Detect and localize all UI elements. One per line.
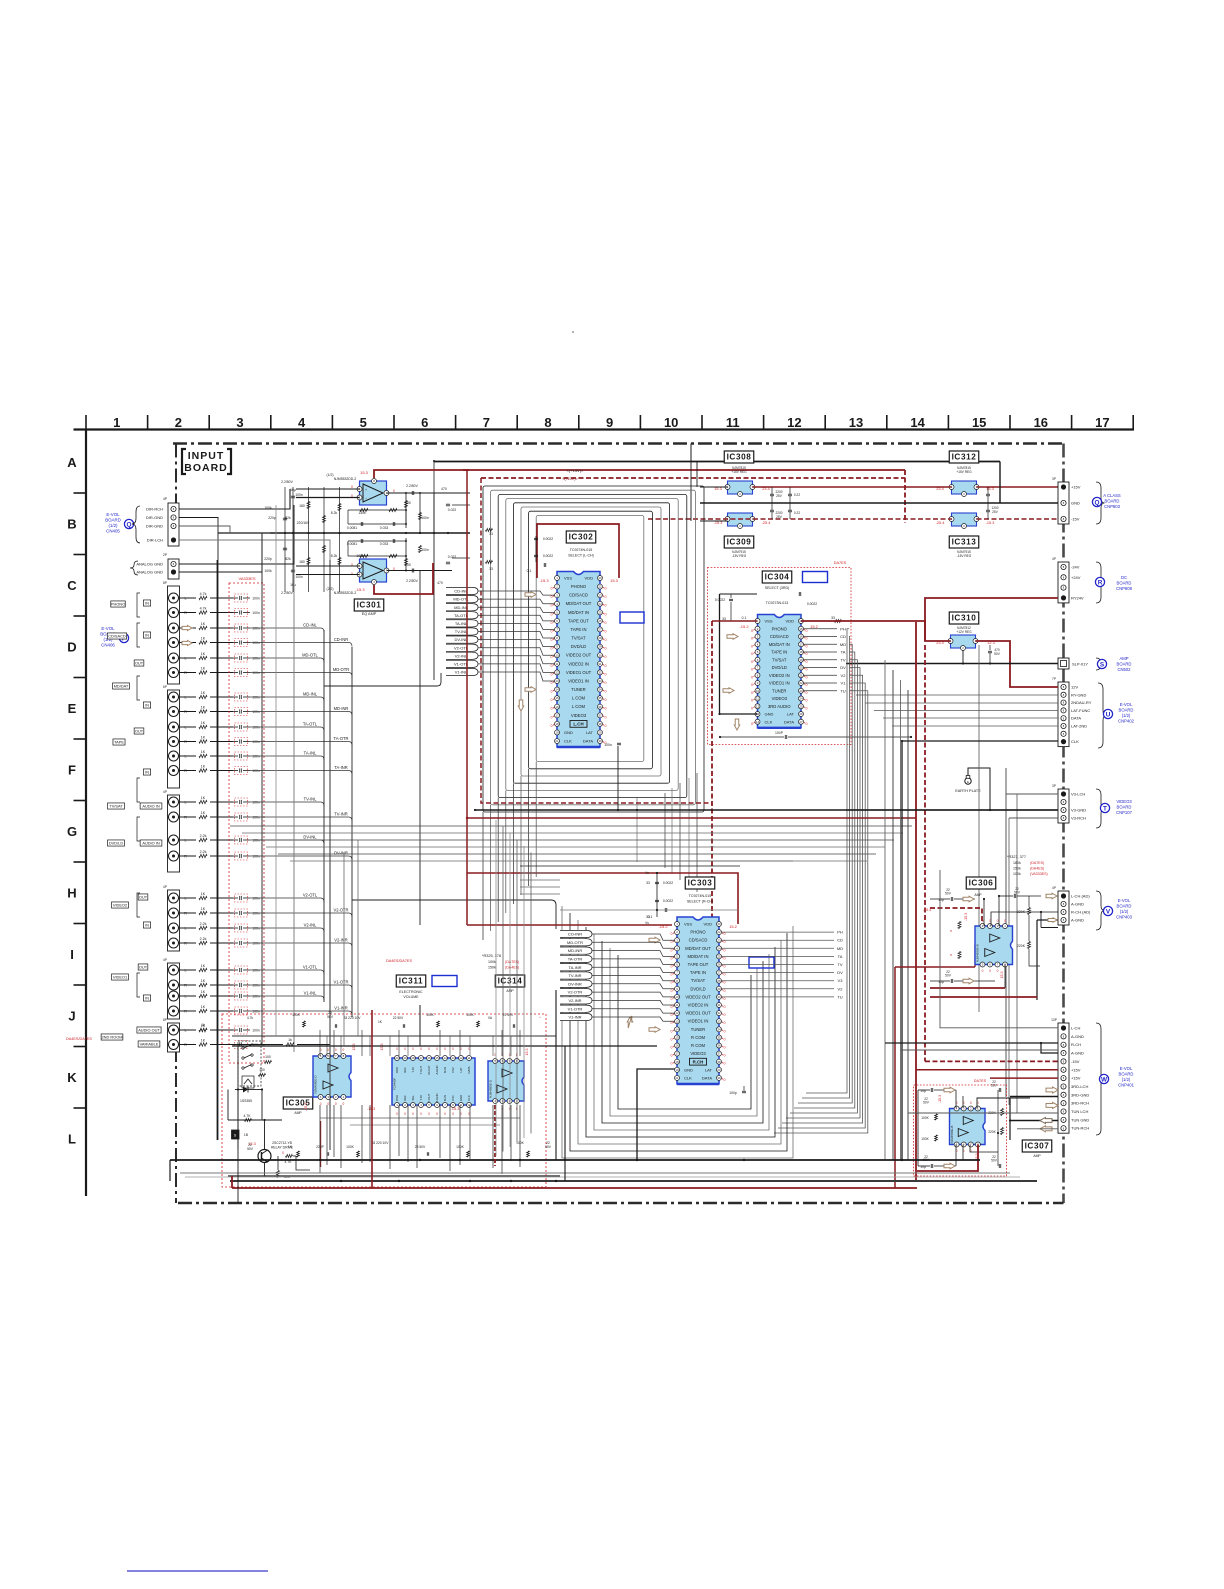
svg-text:VDD: VDD	[704, 922, 713, 927]
svg-text:0.033: 0.033	[380, 526, 389, 530]
svg-text:LAT-2ND: LAT-2ND	[1071, 724, 1087, 729]
IC303 output letters	[722, 930, 844, 1000]
svg-text:100K: 100K	[346, 1145, 355, 1149]
svg-text:I: I	[70, 947, 74, 962]
wire gnd to left	[218, 532, 270, 534]
wires to connector W	[885, 870, 1058, 1129]
svg-text:0.0022: 0.0022	[807, 602, 817, 606]
svg-text:CN405: CN405	[106, 529, 120, 534]
svg-text:24: 24	[799, 697, 803, 701]
svg-text:−: −	[365, 497, 367, 501]
svg-text:A-GND: A-GND	[1071, 1034, 1084, 1039]
svg-text:5: 5	[360, 415, 367, 430]
svg-text:V2-OTL: V2-OTL	[303, 893, 318, 898]
svg-text:0: 0	[412, 1047, 414, 1051]
IC301 red annotations	[351, 470, 395, 592]
svg-text:2.2k: 2.2k	[200, 850, 207, 854]
svg-text:A CLASS: A CLASS	[1103, 493, 1121, 498]
svg-text:14: 14	[910, 415, 925, 430]
svg-text:S: S	[234, 1134, 237, 1138]
svg-text:0: 0	[327, 1102, 329, 1106]
svg-text:OUT: OUT	[139, 894, 148, 899]
svg-text:BOARD: BOARD	[1117, 662, 1132, 667]
svg-text:40: 40	[717, 922, 721, 926]
wire IC310 gnd pin	[962, 650, 964, 664]
svg-text:2.2/50V: 2.2/50V	[281, 591, 293, 595]
svg-text:100P: 100P	[775, 731, 784, 735]
component row above IC311	[247, 1011, 541, 1028]
svg-text:0.0081: 0.0081	[347, 542, 357, 546]
input source select labels	[101, 600, 162, 1047]
svg-text:IC312: IC312	[952, 453, 977, 462]
svg-text:H: H	[67, 886, 76, 901]
svg-text:T-IN: T-IN	[419, 1095, 423, 1100]
op-amp IC301b	[357, 559, 389, 585]
svg-text:TU: TU	[837, 994, 842, 999]
wire bottom bus 4 thick	[230, 1180, 1037, 1182]
input jack connector boxes	[163, 581, 179, 1052]
svg-text:220p: 220p	[268, 516, 276, 520]
IC304 option box DA7ES	[708, 568, 852, 745]
IC303 label	[685, 877, 714, 889]
wire ground bus vertical	[217, 560, 219, 1140]
svg-text:220/16V: 220/16V	[297, 521, 310, 525]
IC305 label	[283, 1097, 312, 1109]
svg-text:CS1: CS1	[451, 1095, 455, 1101]
svg-text:L: L	[184, 927, 186, 931]
arrow IC303 up	[627, 1016, 633, 1028]
svg-text:TUNER: TUNER	[772, 688, 786, 693]
svg-text:PHONO: PHONO	[772, 626, 788, 631]
svg-text:IN: IN	[145, 995, 149, 1000]
svg-text:DV-INR: DV-INR	[334, 851, 348, 856]
svg-text:(DA4ES): (DA4ES)	[1030, 867, 1044, 871]
svg-text:8.2k: 8.2k	[331, 554, 338, 558]
arrow CD L	[182, 626, 192, 631]
svg-text:-15.2: -15.2	[739, 624, 749, 629]
svg-text:TV/SAT: TV/SAT	[109, 803, 123, 808]
wire maroon drop x372	[371, 1010, 373, 1188]
svg-text:0: 0	[671, 989, 673, 993]
svg-text:BOARD: BOARD	[1119, 708, 1134, 713]
IC303 body	[675, 917, 722, 1084]
svg-text:33: 33	[646, 881, 650, 885]
arrow TUN GND	[1040, 1118, 1052, 1124]
wire black drop x556	[555, 990, 557, 1160]
svg-text:1: 1	[113, 415, 120, 430]
svg-text:IC313: IC313	[952, 538, 977, 547]
svg-text:25: 25	[598, 610, 602, 614]
svg-text:18: 18	[411, 1056, 415, 1060]
connector W E-VOL	[1051, 1018, 1089, 1133]
op-amp IC301a	[357, 479, 389, 506]
svg-text:0: 0	[420, 1112, 422, 1116]
power cap values	[775, 490, 998, 519]
svg-text:10: 10	[555, 653, 559, 657]
svg-text:ANALOG GND: ANALOG GND	[136, 562, 163, 567]
IC304 body	[755, 615, 804, 728]
svg-text:10: 10	[664, 415, 678, 430]
svg-text:-15.3: -15.3	[986, 521, 995, 525]
svg-text:BOARD: BOARD	[184, 462, 228, 474]
wire reg inputs	[691, 444, 728, 522]
svg-text:CO-INR: CO-INR	[568, 932, 582, 937]
svg-text:18: 18	[675, 1060, 679, 1064]
svg-text:CLK: CLK	[1071, 739, 1079, 744]
wire +15 IC306 b2	[930, 996, 1037, 998]
svg-text:R: R	[184, 912, 187, 916]
svg-text:LAT: LAT	[787, 712, 795, 717]
svg-text:L-CH: L-CH	[1071, 1026, 1080, 1031]
svg-text:15: 15	[799, 627, 803, 631]
svg-text:1K: 1K	[201, 892, 206, 896]
svg-text:4.7k: 4.7k	[200, 607, 207, 611]
svg-text:38: 38	[598, 722, 602, 726]
svg-text:0: 0	[343, 1102, 345, 1106]
svg-text:15: 15	[555, 696, 559, 700]
arrow IC306 in2	[963, 978, 974, 984]
svg-text:M-OUT: M-OUT	[427, 1065, 431, 1074]
junction CLK	[901, 740, 903, 742]
svg-text:0: 0	[396, 1047, 398, 1051]
svg-text:CD/SACD: CD/SACD	[569, 593, 588, 598]
svg-text:DATA: DATA	[702, 1075, 712, 1080]
svg-text:L COM: L COM	[572, 704, 586, 709]
svg-text:TU: TU	[840, 688, 845, 693]
svg-text:VIDEO2 OUT: VIDEO2 OUT	[566, 653, 592, 658]
svg-text:(1/2): (1/2)	[327, 473, 334, 477]
svg-text:17: 17	[555, 713, 559, 717]
wire maroon mid y818	[466, 817, 916, 819]
svg-text:R COM: R COM	[691, 1043, 705, 1048]
svg-text:VSS: VSS	[684, 922, 692, 927]
svg-text:CNP107: CNP107	[1116, 810, 1132, 815]
svg-text:*R327, 377: *R327, 377	[1007, 855, 1026, 859]
svg-text:TA-OTR: TA-OTR	[568, 957, 583, 962]
svg-text:A-GND: A-GND	[1071, 918, 1084, 923]
svg-text:0: 0	[724, 981, 726, 985]
svg-text:AMP: AMP	[974, 893, 982, 897]
svg-text:R: R	[184, 816, 187, 820]
svg-text:26: 26	[799, 712, 803, 716]
svg-text:0: 0	[551, 595, 553, 599]
IC313 label	[949, 536, 978, 548]
svg-text:33: 33	[831, 616, 835, 620]
wire maroon drop x232	[231, 1176, 233, 1188]
svg-text:25V: 25V	[776, 515, 783, 519]
grid ruler row letters A-L	[67, 455, 77, 1147]
svg-text:39: 39	[717, 1076, 721, 1080]
svg-text:50V: 50V	[945, 974, 952, 978]
wire CD-INR feed vertical	[419, 571, 421, 926]
svg-text:0: 0	[751, 722, 753, 726]
svg-text:16: 16	[555, 705, 559, 709]
wire IC303 VSS red long	[467, 924, 672, 926]
svg-text:3P: 3P	[1052, 477, 1056, 481]
svg-text:RY24V: RY24V	[1071, 595, 1084, 600]
svg-text:SEL: SEL	[411, 1095, 415, 1101]
wire -15SW drop	[904, 470, 906, 523]
svg-text:CD-INR: CD-INR	[334, 637, 348, 642]
svg-text:(1/2): (1/2)	[1122, 713, 1131, 718]
svg-text:AMP: AMP	[1119, 656, 1128, 661]
svg-text:100p: 100p	[729, 1091, 737, 1095]
svg-text:IC301: IC301	[357, 601, 382, 610]
svg-text:11: 11	[675, 1003, 678, 1007]
svg-text:33 220 10V: 33 220 10V	[344, 1016, 362, 1020]
junction dots bottom bus	[319, 1159, 903, 1182]
IC313 subtitle	[957, 550, 972, 558]
wire vertical x1006	[1005, 768, 1007, 1097]
svg-text:0.22: 0.22	[794, 511, 800, 515]
svg-text:L: L	[184, 801, 186, 805]
IC306 passives	[938, 887, 1030, 984]
svg-text:0: 0	[605, 698, 607, 702]
svg-text:DATA: DATA	[784, 719, 794, 724]
svg-text:22: 22	[598, 585, 602, 589]
svg-text:OUT: OUT	[135, 660, 144, 665]
svg-text:E-VOL: E-VOL	[1118, 898, 1131, 903]
wire IC304 VDD red right	[801, 621, 925, 641]
svg-text:IC311: IC311	[399, 977, 423, 986]
svg-text:VIDEO2 OUT: VIDEO2 OUT	[685, 994, 711, 999]
svg-text:13: 13	[451, 1056, 455, 1060]
svg-text:0: 0	[551, 587, 553, 591]
svg-text:TV/SAT: TV/SAT	[691, 978, 706, 983]
wire vertical x294	[293, 505, 295, 1052]
svg-text:35: 35	[598, 696, 602, 700]
svg-text:EARTH PLATE: EARTH PLATE	[955, 789, 981, 793]
svg-text:V3-RCH: V3-RCH	[1071, 816, 1086, 821]
svg-text:0: 0	[605, 707, 607, 711]
svg-text:MD-INR: MD-INR	[568, 948, 583, 953]
wire -15V maroon vertical	[915, 622, 917, 1181]
IC304 label	[762, 571, 791, 583]
svg-text:14: 14	[675, 1027, 679, 1031]
svg-text:CNP401: CNP401	[1118, 1083, 1134, 1088]
svg-text:0.0081: 0.0081	[347, 526, 357, 530]
node U circled	[1103, 709, 1112, 718]
svg-text:16: 16	[799, 635, 803, 639]
AMP BOARD label	[1117, 656, 1132, 672]
svg-text:BOARD: BOARD	[105, 518, 121, 523]
IC305 red marks	[304, 1044, 356, 1112]
svg-text:0: 0	[551, 715, 553, 719]
svg-text:13P: 13P	[1051, 1018, 1057, 1022]
svg-text:VIDEO1 IN: VIDEO1 IN	[688, 1019, 709, 1024]
svg-text:50V: 50V	[945, 892, 952, 896]
svg-text:B: B	[67, 517, 76, 532]
svg-text:0: 0	[671, 965, 673, 969]
svg-text:38: 38	[717, 1060, 721, 1064]
svg-text:14: 14	[555, 688, 559, 692]
svg-text:15: 15	[675, 1036, 679, 1040]
svg-text:MD-INR: MD-INR	[334, 706, 349, 711]
svg-text:-15.3: -15.3	[539, 578, 549, 583]
svg-text:PHONO: PHONO	[111, 601, 125, 606]
svg-text:22: 22	[717, 930, 721, 934]
arrow IC302 down	[518, 700, 524, 711]
svg-text:0: 0	[605, 672, 607, 676]
signal fanout labels	[302, 623, 349, 1011]
E-VOL BOARD CN406 label	[100, 626, 116, 648]
node T circled	[1100, 803, 1109, 812]
svg-text:T-OUT: T-OUT	[419, 1066, 423, 1075]
svg-text:0: 0	[724, 973, 726, 977]
svg-text:1K: 1K	[201, 750, 206, 754]
svg-text:0: 0	[1004, 919, 1006, 923]
svg-text:100k: 100k	[264, 569, 272, 573]
svg-text:0: 0	[724, 1021, 726, 1025]
svg-text:33: 33	[489, 567, 493, 571]
wire bundle right verticals	[885, 660, 908, 1160]
svg-text:R: R	[184, 710, 187, 714]
svg-text:50V: 50V	[247, 1147, 254, 1151]
svg-text:22 50V: 22 50V	[503, 1013, 514, 1017]
connector U E-VOL	[1052, 677, 1092, 747]
svg-text:50V: 50V	[994, 652, 1001, 656]
svg-text:SELECT (R-CH): SELECT (R-CH)	[687, 900, 713, 904]
svg-text:9: 9	[606, 415, 613, 430]
svg-text:0: 0	[751, 644, 753, 648]
wire CLK right	[902, 740, 1058, 742]
svg-text:0: 0	[724, 940, 726, 944]
svg-text:R.CH: R.CH	[693, 1059, 704, 1064]
svg-text:0: 0	[551, 681, 553, 685]
IC311 blue option box	[432, 976, 457, 987]
svg-text:0: 0	[751, 629, 753, 633]
svg-text:11: 11	[555, 662, 558, 666]
svg-text:15.3: 15.3	[352, 1044, 356, 1051]
red note R327	[1007, 855, 1048, 876]
svg-text:0: 0	[806, 660, 808, 664]
svg-text:100: 100	[259, 1068, 265, 1072]
svg-text:DDA: DDA	[395, 1067, 399, 1073]
svg-text:SLP-01Y: SLP-01Y	[1072, 662, 1088, 667]
wire risers above ICs	[320, 1030, 520, 1056]
svg-text:IC308: IC308	[727, 453, 752, 462]
svg-text:2ND ROOM: 2ND ROOM	[102, 1034, 123, 1039]
svg-text:0: 0	[982, 969, 984, 973]
svg-text:24: 24	[717, 946, 721, 950]
IC302 subtitle	[568, 548, 594, 558]
svg-text:*R325, 378: *R325, 378	[482, 954, 501, 958]
svg-text:4.7k: 4.7k	[247, 1016, 254, 1020]
svg-text:7P: 7P	[1052, 677, 1056, 681]
svg-text:TA: TA	[838, 954, 843, 959]
svg-text:CNP403: CNP403	[1116, 915, 1132, 920]
IC302 red pin marks	[551, 587, 607, 745]
svg-text:50V: 50V	[1014, 891, 1021, 895]
svg-text:E-VOL: E-VOL	[106, 512, 120, 517]
svg-text:(1/2): (1/2)	[1120, 909, 1129, 914]
wire trunk L vertical	[323, 630, 325, 1002]
wires into IC303 region	[520, 873, 560, 894]
svg-text:CD: CD	[840, 634, 846, 639]
svg-text:-15.3: -15.3	[355, 587, 365, 592]
svg-text:150k: 150k	[488, 966, 496, 970]
svg-text:0: 0	[806, 668, 808, 672]
svg-text:0: 0	[335, 1102, 337, 1106]
svg-text:NJM4580E-D: NJM4580E-D	[489, 1079, 493, 1098]
svg-text:100k: 100k	[1013, 872, 1021, 876]
IC304 decoupling parts	[715, 592, 912, 739]
svg-text:4P: 4P	[163, 885, 167, 889]
svg-text:R: R	[1098, 579, 1103, 586]
svg-text:TV-INL: TV-INL	[304, 797, 317, 802]
svg-text:1K: 1K	[201, 964, 206, 968]
svg-text:-15V REG: -15V REG	[732, 554, 747, 558]
connector S AMP BOARD	[1058, 658, 1088, 669]
svg-text:-15V: -15V	[1071, 517, 1080, 522]
svg-text:36: 36	[717, 1044, 721, 1048]
svg-text:0: 0	[282, 1151, 284, 1155]
svg-text:12V: 12V	[1071, 685, 1078, 690]
svg-text:0: 0	[605, 604, 607, 608]
svg-text:0: 0	[724, 1054, 726, 1058]
svg-text:0: 0	[551, 638, 553, 642]
svg-text:0: 0	[335, 1048, 337, 1052]
svg-text:VOLUME: VOLUME	[403, 995, 419, 999]
switch resistors	[259, 1055, 272, 1077]
wire bundle IC302 routing loops	[483, 486, 704, 812]
IC303 decoupling parts	[560, 871, 738, 925]
svg-text:+15V: +15V	[1071, 1076, 1081, 1081]
arrow IC302 CD row	[525, 592, 536, 598]
IC302 blue option box	[620, 612, 644, 623]
svg-text:TA-INL: TA-INL	[455, 621, 468, 626]
svg-text:0: 0	[751, 637, 753, 641]
wire IC302 right loops down	[637, 773, 697, 892]
grid ruler column numbers 1-17	[113, 415, 1109, 430]
node Q2 circled	[1092, 497, 1101, 506]
svg-text:-24V: -24V	[1071, 565, 1080, 570]
svg-text:PHONO: PHONO	[690, 930, 706, 935]
svg-text:0: 0	[724, 1062, 726, 1066]
svg-text:12: 12	[756, 704, 760, 708]
svg-text:TV: TV	[837, 962, 842, 967]
svg-text:L: L	[184, 995, 186, 999]
svg-text:8.2k: 8.2k	[331, 511, 338, 515]
svg-text:0: 0	[724, 1078, 726, 1082]
IC311 body TC9460F	[392, 1056, 475, 1108]
svg-text:DIR-GND: DIR-GND	[146, 515, 163, 520]
svg-text:ANALOG GND: ANALOG GND	[136, 570, 163, 575]
wire top to right bus	[999, 462, 1001, 504]
svg-text:12: 12	[675, 1011, 679, 1015]
svg-text:16: 16	[675, 1044, 679, 1048]
connector T VIDEO3	[1052, 784, 1086, 823]
svg-text:REF: REF	[403, 1067, 407, 1073]
svg-text:10µ: 10µ	[290, 488, 296, 492]
svg-text:MD/DAT IN: MD/DAT IN	[769, 642, 790, 647]
svg-text:30: 30	[717, 995, 721, 999]
svg-text:0: 0	[724, 1029, 726, 1033]
wire bundle IC303 routing loops	[562, 906, 793, 1158]
connector T brace	[1096, 789, 1105, 828]
svg-text:0: 0	[327, 1048, 329, 1052]
IC313 body	[949, 513, 979, 529]
svg-text:T: T	[1103, 805, 1107, 812]
svg-text:39: 39	[598, 739, 602, 743]
svg-text:V2-OTR: V2-OTR	[333, 908, 348, 913]
svg-text:CNP803: CNP803	[1104, 504, 1120, 509]
svg-text:L: L	[184, 1029, 186, 1033]
svg-text:100n: 100n	[252, 596, 260, 600]
svg-text:ELECTRONIC: ELECTRONIC	[399, 990, 423, 994]
VA333ES option box	[229, 583, 264, 1063]
svg-text:L: L	[184, 657, 186, 661]
